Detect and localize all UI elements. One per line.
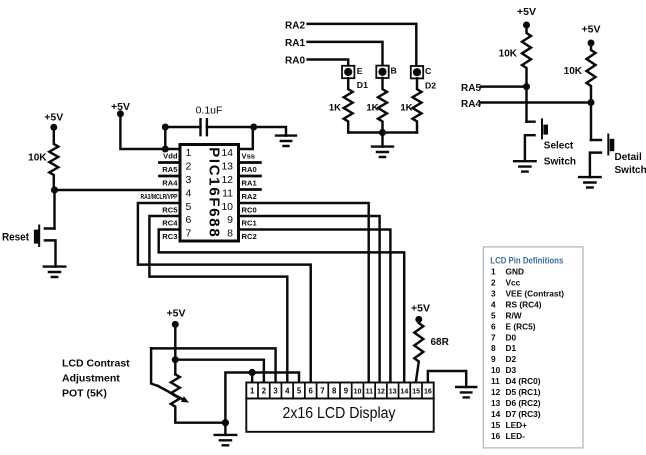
svg-text:4: 4	[285, 387, 290, 396]
svg-text:R/W: R/W	[506, 310, 522, 320]
LED B	[376, 66, 388, 78]
svg-text:+5V: +5V	[411, 302, 430, 314]
svg-text:RC4: RC4	[162, 219, 178, 228]
svg-text:D1: D1	[506, 343, 517, 353]
svg-text:RS (RC4): RS (RC4)	[506, 300, 542, 310]
wire RA5	[481, 85, 527, 87]
svg-text:5: 5	[186, 201, 192, 213]
wire VEE to LCD pin 3	[151, 348, 275, 382]
svg-text:Switch: Switch	[615, 165, 646, 176]
ground (POT / LCD GND)	[215, 435, 237, 445]
svg-text:11: 11	[491, 376, 500, 386]
svg-text:1K: 1K	[400, 103, 412, 114]
svg-text:RC2: RC2	[242, 232, 257, 241]
wire rail to ground	[381, 133, 383, 147]
svg-text:8: 8	[227, 227, 233, 239]
svg-text:2: 2	[262, 387, 267, 396]
svg-text:11: 11	[222, 187, 233, 199]
svg-text:D2: D2	[506, 354, 517, 364]
resistor 1K (D1)	[344, 78, 353, 132]
wire Vdd node up to cap rail	[164, 127, 166, 149]
svg-text:7: 7	[491, 332, 496, 342]
svg-text:11: 11	[366, 389, 374, 396]
svg-text:14: 14	[401, 389, 409, 396]
svg-text:9: 9	[227, 214, 233, 226]
svg-text:D1: D1	[357, 80, 368, 90]
ground (select)	[514, 161, 536, 171]
svg-text:C: C	[425, 66, 432, 76]
svg-text:4: 4	[186, 187, 192, 199]
svg-text:RA4: RA4	[162, 179, 178, 188]
wire RC5 to LCD pin 6	[138, 203, 311, 383]
wire ground rail up to LCD pins 1+5	[225, 373, 299, 423]
svg-text:Vcc: Vcc	[506, 278, 521, 288]
resistor 68R	[414, 319, 423, 382]
node Vdd branch	[162, 146, 169, 153]
svg-text:14: 14	[221, 147, 233, 159]
wire RA4	[481, 101, 591, 103]
svg-text:RA2: RA2	[242, 192, 257, 201]
svg-text:PIC16F688: PIC16F688	[206, 147, 223, 238]
svg-text:2: 2	[186, 160, 192, 172]
LCD pin header cells	[246, 383, 433, 399]
pushbutton Select Switch	[525, 122, 535, 162]
svg-text:RA2: RA2	[285, 20, 305, 31]
svg-text:E (RC5): E (RC5)	[506, 321, 536, 331]
node RA5 junction	[523, 83, 530, 90]
svg-text:1: 1	[186, 147, 192, 159]
wire rail to ground	[254, 127, 286, 136]
svg-text:1: 1	[491, 267, 496, 277]
wire RC0 to LCD pin 11	[239, 203, 369, 383]
svg-text:D4 (RC0): D4 (RC0)	[506, 376, 541, 386]
svg-text:RA0: RA0	[285, 55, 305, 66]
wire +5V down to POT	[174, 324, 176, 374]
svg-text:POT (5K): POT (5K)	[62, 387, 107, 399]
svg-text:2: 2	[491, 278, 496, 288]
svg-text:RC1: RC1	[242, 219, 258, 228]
svg-text:D0: D0	[506, 332, 517, 342]
svg-text:B: B	[391, 66, 397, 76]
svg-text:1: 1	[250, 387, 255, 396]
wire reset node to chip pin 4	[55, 189, 181, 191]
LCD pin definitions table	[483, 247, 583, 448]
svg-text:0.1uF: 0.1uF	[196, 105, 223, 117]
wire RC1 to LCD pin 12	[239, 216, 380, 383]
wire Vss riser	[239, 127, 253, 149]
pushbutton Detail Switch	[590, 140, 601, 177]
svg-text:4: 4	[491, 300, 496, 310]
svg-text:RA5: RA5	[461, 83, 481, 94]
svg-text:RA1: RA1	[242, 179, 258, 188]
svg-text:10K: 10K	[28, 153, 47, 164]
node RA4 junction	[588, 99, 595, 106]
resistor 10K (select pull-up)	[522, 25, 531, 87]
svg-text:LCD Pin Definitions: LCD Pin Definitions	[490, 256, 563, 266]
svg-text:E: E	[357, 66, 363, 76]
svg-text:Select: Select	[544, 141, 574, 152]
svg-text:7: 7	[320, 387, 324, 396]
wire RA4 stub	[160, 175, 181, 178]
node Vcc branch	[172, 356, 179, 363]
wire cap rail left	[165, 126, 200, 128]
wire Vcc to LCD pin 2	[175, 360, 264, 383]
svg-text:15: 15	[491, 420, 501, 430]
svg-text:+5V: +5V	[167, 308, 186, 320]
svg-text:1K: 1K	[366, 103, 378, 114]
svg-text:15: 15	[412, 389, 420, 396]
resistor 10K (detail pull-up)	[587, 43, 596, 103]
svg-text:VEE (Contrast): VEE (Contrast)	[506, 289, 565, 299]
svg-text:13: 13	[389, 389, 397, 396]
svg-text:5: 5	[297, 387, 302, 396]
svg-text:D6 (RC2): D6 (RC2)	[506, 398, 541, 408]
svg-text:3: 3	[186, 174, 192, 186]
svg-text:Vss: Vss	[242, 152, 256, 161]
svg-text:Detail: Detail	[615, 152, 642, 163]
resistor 1K (B)	[378, 78, 387, 133]
pushbutton Reset	[45, 229, 56, 267]
capacitor C1 0.1uF	[201, 119, 207, 135]
ground (Vss)	[276, 136, 296, 146]
svg-text:8: 8	[491, 343, 496, 353]
node POT ground junction	[222, 419, 229, 426]
svg-text:+5V: +5V	[517, 6, 536, 18]
svg-text:10K: 10K	[499, 48, 518, 59]
wire LED common rail	[348, 131, 417, 133]
wire RA0 stub	[239, 161, 261, 164]
svg-text:6: 6	[309, 387, 314, 396]
node LCD pin 1 junction	[249, 369, 256, 376]
svg-text:2x16 LCD Display: 2x16 LCD Display	[283, 405, 396, 422]
wire RC3 to LCD pin 14	[159, 230, 405, 383]
wire RA2 stub	[239, 188, 261, 191]
potentiometer wiper arrow	[151, 348, 158, 386]
LCD display body	[246, 399, 433, 432]
wire RA5 node to select switch	[525, 87, 527, 122]
svg-text:D7 (RC3): D7 (RC3)	[506, 409, 541, 419]
svg-text:LED+: LED+	[506, 420, 528, 430]
svg-text:Reset: Reset	[2, 232, 29, 244]
svg-text:6: 6	[186, 214, 192, 226]
svg-text:10: 10	[354, 389, 362, 396]
wire RA0 to LED D1	[308, 60, 349, 66]
svg-text:D2: D2	[425, 80, 436, 90]
svg-text:Adjustment: Adjustment	[62, 372, 120, 384]
svg-text:Switch: Switch	[544, 156, 576, 167]
ground (backlight)	[456, 387, 476, 397]
svg-text:12: 12	[491, 387, 501, 397]
svg-text:12: 12	[377, 389, 385, 396]
svg-text:GND: GND	[506, 267, 524, 277]
svg-text:6: 6	[491, 321, 496, 331]
svg-text:7: 7	[186, 227, 192, 239]
potentiometer 5K	[171, 374, 226, 422]
svg-text:5: 5	[491, 310, 496, 320]
svg-text:RC0: RC0	[242, 206, 257, 215]
svg-text:9: 9	[491, 354, 496, 364]
svg-text:8: 8	[332, 387, 337, 396]
svg-text:RA4: RA4	[461, 99, 481, 110]
svg-text:3: 3	[273, 387, 278, 396]
ground (detail)	[579, 177, 601, 187]
node cap rail left	[162, 124, 169, 131]
wire RC2 to LCD pin 13	[239, 230, 391, 383]
ground (reset)	[44, 267, 66, 277]
wire RA2 to LED D2	[308, 24, 417, 66]
svg-text:LED-: LED-	[506, 431, 526, 441]
svg-text:LCD Contrast: LCD Contrast	[62, 357, 130, 369]
svg-text:RA5: RA5	[162, 165, 178, 174]
resistor 10K (reset pull-up)	[49, 127, 58, 190]
svg-text:+5V: +5V	[582, 24, 601, 36]
wire RA1 stub	[239, 175, 261, 178]
svg-text:10: 10	[221, 201, 233, 213]
node RA3 (reset junction)	[51, 186, 58, 193]
svg-text:10: 10	[491, 365, 501, 375]
svg-text:16: 16	[424, 389, 432, 396]
svg-text:Vdd: Vdd	[163, 152, 178, 161]
LED D1	[342, 66, 354, 78]
op-amp U1 PIC16F688 body	[180, 145, 239, 242]
svg-text:68R: 68R	[431, 337, 450, 348]
LED D2	[411, 66, 423, 78]
resistor 1K (D2)	[413, 78, 422, 132]
wire cap rail right	[207, 126, 254, 128]
wire +5V to Vdd pin 1	[120, 114, 180, 149]
svg-text:RC3: RC3	[162, 232, 177, 241]
wire RC4 to LCD pin 4	[149, 216, 287, 383]
node LED rail	[379, 129, 386, 136]
svg-text:RA1: RA1	[285, 38, 305, 49]
wire RA4 node to detail switch	[590, 103, 592, 141]
svg-text:D5 (RC1): D5 (RC1)	[506, 387, 541, 397]
svg-text:+5V: +5V	[44, 111, 63, 123]
svg-text:RC5: RC5	[162, 206, 178, 215]
svg-text:16: 16	[491, 431, 501, 441]
wire LCD pin 1 stub	[251, 373, 253, 383]
node cap rail right	[250, 124, 257, 131]
svg-text:12: 12	[221, 174, 233, 186]
wire LED- to ground	[428, 371, 466, 387]
wire reset node down to switch	[53, 190, 55, 229]
svg-text:1K: 1K	[329, 103, 341, 114]
svg-text:9: 9	[344, 387, 349, 396]
svg-text:3: 3	[491, 289, 496, 299]
wire RA1 to LED B	[308, 42, 383, 66]
svg-text:14: 14	[491, 409, 501, 419]
svg-text:10K: 10K	[564, 66, 583, 77]
wire RA5 stub	[160, 161, 181, 164]
wire POT junction to ground	[224, 423, 226, 435]
ground (LEDs)	[372, 147, 393, 157]
svg-text:13: 13	[491, 398, 501, 408]
svg-text:13: 13	[221, 160, 233, 172]
svg-text:D3: D3	[506, 365, 517, 375]
svg-text:RA3/MCLR/VPP: RA3/MCLR/VPP	[141, 192, 178, 201]
svg-text:RA0: RA0	[242, 165, 257, 174]
